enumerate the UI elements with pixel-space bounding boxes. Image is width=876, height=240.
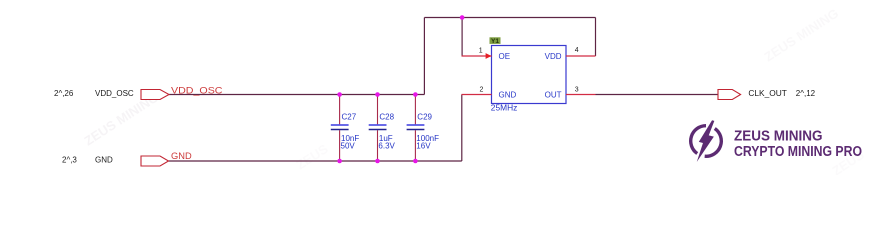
svg-text:VDD_OSC: VDD_OSC — [95, 89, 134, 98]
svg-text:C28: C28 — [379, 112, 394, 121]
watermark — [81, 6, 867, 179]
svg-text:GND: GND — [499, 91, 517, 100]
capacitor C28 — [369, 95, 396, 162]
logo lightning bolt — [694, 118, 718, 164]
svg-text:2^,26: 2^,26 — [54, 89, 74, 98]
wire junction down to pin 1 — [461, 18, 463, 57]
svg-text:VDD: VDD — [545, 52, 562, 61]
wire GND up to pin 2 — [461, 95, 463, 162]
oscillator U Y1 body — [492, 46, 567, 104]
wire VDD_OSC horizontal — [169, 94, 424, 96]
svg-text:ZEUS MINING: ZEUS MINING — [734, 129, 823, 145]
capacitor C27 — [331, 95, 360, 162]
svg-text:VDD_OSC: VDD_OSC — [171, 85, 223, 95]
svg-text:3: 3 — [575, 86, 579, 93]
port GND — [141, 156, 169, 166]
wire top rail — [424, 17, 595, 19]
pin 2 stub — [462, 94, 492, 96]
logo ring arc left — [691, 126, 706, 154]
port CLK_OUT — [718, 90, 741, 100]
wire vertical up from VDD_OSC to top rail — [423, 18, 425, 95]
port VDD_OSC — [141, 90, 169, 100]
logo ring arc right — [705, 128, 722, 156]
svg-text:OE: OE — [499, 52, 511, 61]
capacitor C29 — [407, 95, 439, 162]
svg-text:2^,3: 2^,3 — [62, 156, 77, 165]
svg-text:16V: 16V — [416, 141, 431, 150]
pin 1 input arrow — [486, 53, 492, 59]
wire pin 3 to CLK_OUT port — [596, 94, 719, 96]
svg-text:4: 4 — [575, 47, 579, 54]
wire GND horizontal — [169, 160, 462, 162]
pin 3 stub — [566, 94, 596, 96]
junction dots — [337, 92, 342, 97]
pin 4 stub — [566, 55, 596, 57]
svg-text:C27: C27 — [342, 112, 357, 121]
svg-text:25MHz: 25MHz — [491, 104, 518, 113]
wire down to pin 4 — [595, 18, 597, 57]
svg-text:2: 2 — [480, 86, 484, 93]
svg-text:GND: GND — [95, 156, 113, 165]
svg-text:2^,12: 2^,12 — [796, 89, 816, 98]
svg-text:C29: C29 — [417, 112, 432, 121]
pin 1 stub — [462, 55, 492, 57]
svg-text:1: 1 — [479, 48, 483, 55]
svg-text:Y1: Y1 — [491, 38, 499, 45]
svg-text:GND: GND — [171, 151, 192, 161]
svg-text:OUT: OUT — [545, 91, 562, 100]
svg-text:50V: 50V — [341, 141, 356, 150]
designator Y1 highlighted — [490, 37, 501, 45]
logo ZEUS MINING — [691, 118, 862, 164]
svg-text:CLK_OUT: CLK_OUT — [748, 89, 787, 98]
svg-text:6.3V: 6.3V — [378, 141, 395, 150]
svg-text:CRYPTO MINING PRO: CRYPTO MINING PRO — [734, 144, 862, 160]
